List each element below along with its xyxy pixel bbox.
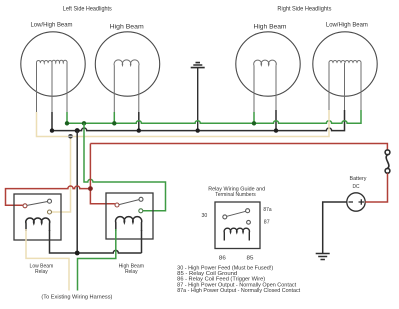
svg-text:High Beam: High Beam xyxy=(110,23,144,30)
circuit breaker CB1 xyxy=(385,150,390,173)
wire: green trigger from high beam relay coil 86 to harness xyxy=(78,229,116,291)
wire: green high-beam bus xyxy=(67,110,361,123)
wire: black from battery - to ground xyxy=(323,202,347,253)
lamp L4 dual filament coil xyxy=(329,60,361,110)
wire: black ground bus xyxy=(52,110,345,131)
svg-text:Right Side Headlights: Right Side Headlights xyxy=(277,7,331,13)
relay K1 low beam relay box xyxy=(14,194,61,240)
wire: tan low-beam bus xyxy=(37,110,330,137)
wire: red from breaker to battery + xyxy=(365,173,387,202)
svg-text:85: 85 xyxy=(247,256,254,262)
junction: green bus dots xyxy=(65,121,256,125)
relay K2 high beam relay box xyxy=(106,193,153,239)
wire: ground stem to black bus xyxy=(197,68,199,131)
ground symbol (headlight common ground, top middle) xyxy=(191,63,205,68)
junction: red tee dot xyxy=(88,186,93,191)
wire: red battery feed main run xyxy=(90,144,387,151)
connector: tan bus junction xyxy=(68,134,73,139)
relay guide box xyxy=(215,202,260,249)
relay K1 switch: 30 contact xyxy=(23,204,27,208)
svg-text:(To Existing Wiring Harness): (To Existing Wiring Harness) xyxy=(41,294,112,300)
svg-text:Left Side Headlights: Left Side Headlights xyxy=(63,6,112,12)
lamp L2 coil xyxy=(114,60,139,112)
wire: green drop from bus to high beam relay 87 xyxy=(84,123,166,211)
relay K1 switch arm and 87a contact xyxy=(27,202,48,206)
svg-text:Low/High Beam: Low/High Beam xyxy=(326,22,368,29)
svg-text:Terminal Numbers: Terminal Numbers xyxy=(215,192,256,198)
svg-text:87a: 87a xyxy=(263,207,272,213)
lamp L3 coil xyxy=(254,60,277,112)
wire: tan trigger from low beam relay coil 86 to harness xyxy=(26,229,69,291)
relay guide coil xyxy=(224,228,249,240)
wire: black drop from bus to relay coil grounds xyxy=(76,131,78,253)
lamp L1 dual filament coil xyxy=(36,60,67,112)
svg-text:Low/High Beam: Low/High Beam xyxy=(31,22,73,29)
relay K2 87 contact xyxy=(139,209,143,213)
wire: red branch to low beam relay 30 xyxy=(6,186,91,205)
relay K1 coil xyxy=(26,218,50,231)
lamp L2 left high beam bulb xyxy=(95,32,159,96)
svg-text:DC: DC xyxy=(353,184,360,190)
ground symbol (battery ground) xyxy=(316,254,330,260)
svg-text:87: 87 xyxy=(264,220,270,226)
svg-text:87a - High Power Output - Norm: 87a - High Power Output - Normally Close… xyxy=(177,288,300,294)
battery BT1 xyxy=(347,193,365,211)
svg-text:86: 86 xyxy=(219,256,226,262)
svg-text:Battery: Battery xyxy=(350,176,367,182)
legend: relay terminal descriptions xyxy=(177,266,300,294)
relay guide switch arm and 87a contact xyxy=(227,211,246,216)
relay K2 coil xyxy=(116,217,142,231)
lamp L1 left low/high beam bulb xyxy=(21,32,85,96)
junction: black bus dots xyxy=(50,128,278,133)
lamp L3 right high beam bulb xyxy=(236,32,300,96)
svg-text:30: 30 xyxy=(202,213,208,219)
svg-text:High Beam: High Beam xyxy=(254,23,287,30)
relay K2 switch: 30 contact xyxy=(115,203,119,207)
relay guide 30 contact xyxy=(223,215,227,219)
wire: relay coil ground link (85 terminals) xyxy=(50,230,142,253)
lamp L4 right low/high beam bulb xyxy=(313,32,377,96)
wire: tan tap down to low beam relay 87 xyxy=(52,137,71,213)
relay K2 switch arm and 87a contact xyxy=(119,200,139,205)
relay K1 87 contact xyxy=(48,210,52,214)
wire: red drop to relays xyxy=(90,144,115,204)
relay guide 87 contact xyxy=(247,220,251,224)
svg-text:Relay: Relay xyxy=(125,269,138,275)
svg-text:Relay: Relay xyxy=(35,269,48,275)
junction: coil ground tee xyxy=(75,251,80,256)
